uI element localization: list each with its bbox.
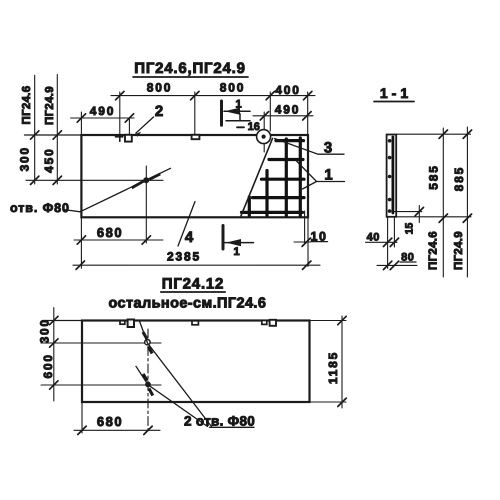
hole1 centerline (41, 342, 161, 344)
svg-text:1: 1 (233, 246, 239, 258)
section bottom extension right (396, 216, 471, 218)
lifting hole circle (257, 130, 271, 144)
svg-text:1185: 1185 (326, 351, 340, 384)
dimension 490 right (253, 103, 313, 121)
dimension 585 line (427, 128, 448, 277)
label 2 otv F80 (184, 414, 255, 429)
svg-text:4: 4 (185, 229, 194, 246)
embed plates bottom drawing (120, 321, 125, 325)
leader otv F80 (10, 168, 171, 215)
svg-text:800: 800 (220, 81, 245, 95)
label 3 with leader (275, 139, 345, 157)
panel top edge extension left (25, 134, 82, 136)
svg-text:400: 400 (275, 83, 300, 97)
svg-text:490: 490 (275, 103, 300, 117)
dimension 680 bottom drawing (74, 414, 160, 435)
panel outline plan view (81, 135, 308, 217)
dimension 885 line (452, 127, 472, 277)
bottom edge extension right (310, 401, 347, 403)
dimension 300-600 vertical line bottom drawing (38, 308, 58, 401)
section extensions down (387, 217, 389, 268)
svg-text:885: 885 (452, 166, 466, 191)
top edge extension left bottom drawing (42, 320, 82, 322)
panel outline PG24.12 (82, 321, 310, 403)
label 1 mesh with two leaders (296, 161, 345, 190)
svg-text:ПГ24.9: ПГ24.9 (44, 86, 56, 125)
section marker 1 top (222, 99, 251, 126)
svg-text:отв. Ф80: отв. Ф80 (10, 201, 70, 215)
svg-text:3: 3 (324, 140, 332, 157)
svg-text:680: 680 (97, 414, 123, 429)
section mesh line (391, 137, 394, 213)
dimension 680 top drawing (74, 225, 163, 244)
hole2 centerline (41, 384, 161, 386)
title PG24.6,PG24.9 (133, 60, 248, 77)
dimension 450 vertical line (42, 75, 62, 185)
mesh horizontal bars (242, 141, 305, 213)
svg-text:300: 300 (38, 318, 52, 343)
title PG24.12 (161, 276, 225, 293)
dashed centerline through holes (147, 329, 149, 434)
circle centerline vertical (263, 112, 265, 152)
mesh diagonal cut line (241, 139, 273, 216)
dimension 1185 (326, 316, 346, 408)
top edge extension right bottom drawing (310, 320, 347, 322)
title 1-1 (374, 85, 414, 102)
section top extension right (396, 133, 470, 135)
dimension 300 vertical line (17, 75, 38, 184)
svg-text:800: 800 (147, 81, 172, 95)
svg-text:300: 300 (17, 146, 31, 171)
svg-text:1-1: 1-1 (380, 85, 412, 101)
extension panel left down bottom drawing (81, 402, 83, 433)
dimension 15 (404, 206, 424, 235)
hole centerline horizontal (26, 179, 163, 181)
svg-text:600: 600 (41, 353, 55, 378)
dimension 490 left (71, 104, 134, 135)
dimension 10 right (294, 211, 328, 267)
mesh bottom extension (394, 211, 422, 213)
dimension 800-800-400 top (111, 81, 315, 136)
hole2 mark (142, 373, 154, 396)
svg-text:ПГ24.6: ПГ24.6 (428, 231, 440, 270)
svg-text:40: 40 (367, 232, 380, 244)
hole mark plan view (131, 173, 160, 190)
svg-text:2385: 2385 (167, 250, 201, 264)
svg-text:ПГ24.12: ПГ24.12 (162, 276, 224, 293)
svg-text:585: 585 (427, 164, 441, 189)
dimension 40 (366, 232, 399, 247)
dimension 80 (377, 252, 417, 270)
mesh vertical bars (249, 138, 300, 216)
section rebar dots (388, 139, 392, 213)
extension hole vertical (145, 166, 147, 243)
svg-text:490: 490 (90, 104, 115, 118)
svg-text:ПГ24.9: ПГ24.9 (453, 231, 465, 270)
embed plates top edge (115, 135, 124, 138)
svg-text:680: 680 (97, 225, 123, 240)
svg-text:ПГ24.6,ПГ24.9: ПГ24.6,ПГ24.9 (134, 60, 246, 77)
leader line hole2 (136, 366, 208, 426)
svg-text:450: 450 (42, 147, 56, 172)
section outline (387, 135, 397, 217)
dimension 2385 (73, 250, 320, 270)
leader line hole1 (139, 321, 211, 427)
svg-text:2 отв. Ф80: 2 отв. Ф80 (184, 414, 255, 429)
section marker 1 bottom (223, 226, 254, 259)
svg-text:остальное-см.ПГ24.6: остальное-см.ПГ24.6 (108, 296, 266, 312)
svg-text:15: 15 (404, 223, 416, 235)
weld mark with -16 (226, 114, 260, 133)
hole1 mark (142, 331, 154, 354)
svg-text:ПГ24.6: ПГ24.6 (21, 86, 33, 125)
svg-text:1: 1 (236, 99, 242, 111)
extension panel left down (80, 217, 82, 268)
svg-text:1: 1 (324, 167, 332, 184)
svg-text:2: 2 (155, 103, 163, 120)
label 4 with leader (178, 202, 195, 247)
label 2 with leader (135, 103, 163, 137)
